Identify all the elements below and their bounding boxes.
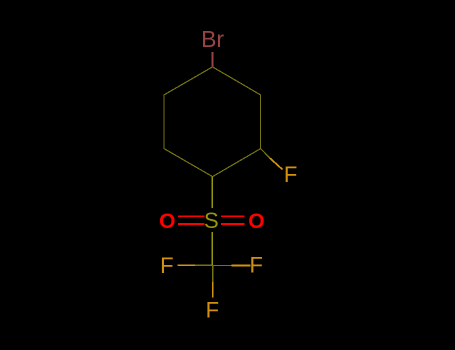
- svg-text:S: S: [204, 208, 219, 233]
- svg-text:F: F: [249, 252, 262, 277]
- svg-text:F: F: [284, 162, 297, 187]
- svg-text:O: O: [248, 210, 264, 233]
- svg-text:F: F: [160, 253, 173, 278]
- svg-text:O: O: [159, 210, 175, 233]
- svg-text:Br: Br: [201, 26, 224, 52]
- svg-text:F: F: [206, 298, 219, 323]
